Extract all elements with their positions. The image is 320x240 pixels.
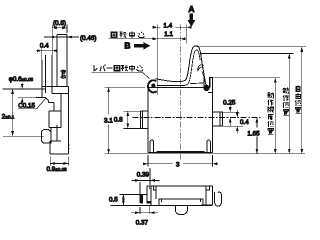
svg-text:0.8: 0.8 [114, 116, 123, 123]
main view right terminal [213, 112, 223, 126]
svg-text:1.65: 1.65 [247, 130, 260, 137]
dim 3.1 [104, 87, 145, 154]
svg-text:φ0.6±0.05: φ0.6±0.05 [9, 76, 34, 83]
main view left foot clip [150, 140, 154, 152]
bottom view lever hook [215, 192, 222, 206]
side view terminal block [49, 93, 61, 127]
side view lever blade [57, 34, 67, 86]
lever pivot [148, 80, 157, 92]
body vertical centerline [179, 25, 181, 160]
dim 0.5 [109, 194, 142, 205]
rotation center line [157, 24, 159, 95]
mounting plane line [105, 153, 305, 155]
svg-text:0.5: 0.5 [109, 196, 118, 203]
section arrow B [124, 41, 150, 51]
lever arm [155, 46, 207, 91]
bottom view terminal leg 2 [147, 186, 151, 203]
svg-text:1.4: 1.4 [163, 23, 172, 30]
dim phi 0.6 [9, 76, 36, 104]
extension for 1.4 [186, 24, 188, 43]
dim (0.8) [52, 20, 67, 55]
dim line operating position [283, 53, 291, 153]
main view right foot clip [207, 140, 211, 152]
dim 0.37 [131, 206, 158, 227]
main view body [148, 78, 213, 153]
terminal horizontal centerline [133, 117, 261, 119]
dim 0.4 side [36, 43, 57, 60]
side view pivot pin [23, 55, 54, 111]
lever tip roller [204, 77, 210, 91]
dim 0.8 left tab [114, 111, 140, 128]
svg-text:0.4: 0.4 [240, 119, 249, 126]
svg-text:0.9±0.05: 0.9±0.05 [47, 166, 68, 173]
dim 0.4 right [222, 110, 249, 134]
svg-text:(0.46): (0.46) [80, 35, 96, 42]
svg-text:B: B [124, 41, 130, 51]
label kaiten-chushin (rotation center) [108, 31, 157, 38]
svg-text:(0.1): (0.1) [61, 70, 66, 79]
operating position line [201, 52, 294, 54]
dim 0.9 +/-0.05 [47, 157, 69, 173]
dim 1.1 [153, 31, 186, 40]
free position line [196, 46, 306, 48]
section arrow A [188, 4, 196, 28]
svg-text:(0.8): (0.8) [53, 20, 66, 27]
dim line free position [295, 47, 303, 154]
dim 0.25 [222, 100, 239, 127]
main view left terminal [140, 111, 148, 128]
svg-text:1.1: 1.1 [164, 31, 173, 38]
label lever rotation center [92, 65, 150, 79]
dim line operating limit position [268, 78, 277, 154]
side view gap note (0.1) [61, 70, 66, 79]
svg-text:3.1: 3.1 [104, 118, 113, 125]
operating limit line [213, 77, 281, 79]
dim (0.46) [44, 35, 96, 42]
side view lower block [50, 125, 69, 154]
dim 0.39 [131, 168, 159, 185]
svg-text:A: A [188, 4, 194, 14]
svg-text:3: 3 [176, 161, 180, 168]
svg-text:C0.15: C0.15 [18, 103, 35, 110]
bottom view inner tray [159, 199, 203, 205]
main view bottom heavy edge [157, 151, 205, 153]
bottom view center boss [175, 205, 187, 214]
side view hex pin [42, 128, 51, 144]
dim 2 +/-0.1 [2, 89, 44, 136]
svg-text:2±0.1: 2±0.1 [2, 114, 15, 121]
dim 3 [143, 155, 218, 168]
side view body outline [42, 55, 69, 154]
bottom view corner reliefs [153, 186, 209, 190]
svg-text:0.37: 0.37 [136, 219, 149, 226]
note C0.15 [18, 98, 46, 110]
bottom view outline [147, 186, 213, 205]
dim 1.65 [247, 118, 260, 154]
svg-text:0.25: 0.25 [223, 100, 236, 107]
svg-text:0.4: 0.4 [40, 43, 49, 50]
mounting plane under bottom view [111, 204, 151, 206]
dim 1.4 [153, 23, 192, 30]
svg-text:0.39: 0.39 [137, 172, 150, 179]
bottom view terminal leg 1 [140, 182, 147, 204]
